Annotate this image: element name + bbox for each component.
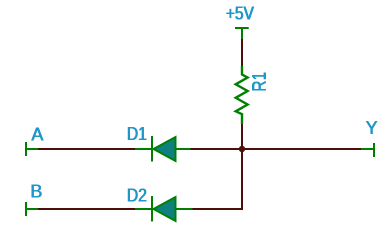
svg-text:+5V: +5V <box>226 4 254 24</box>
svg-text:B: B <box>31 182 43 202</box>
svg-text:D2: D2 <box>127 185 147 205</box>
svg-text:Y: Y <box>366 118 378 138</box>
svg-text:D1: D1 <box>127 124 147 144</box>
svg-text:A: A <box>32 125 44 145</box>
svg-text:R1: R1 <box>250 72 270 92</box>
